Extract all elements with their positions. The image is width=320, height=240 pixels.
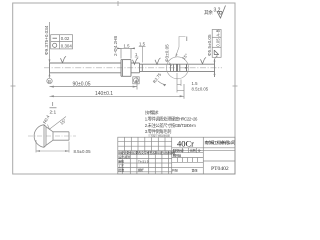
main vertical dividers — [171, 137, 173, 174]
roughness check symbol — [217, 6, 226, 19]
svg-text:1.零件调质处理硬度HRC22~26: 1.零件调质处理硬度HRC22~26 — [145, 116, 198, 123]
groove left line — [170, 64, 172, 71]
svg-text:设计 郑洪: 设计 郑洪 — [118, 154, 130, 159]
detail dim 8.5±0.05 — [36, 140, 69, 153]
svg-text:B: B — [48, 79, 51, 84]
svg-text:1.5: 1.5 — [139, 41, 146, 46]
detail 15 deg angle line — [49, 117, 66, 130]
svg-text:8.5±0.05: 8.5±0.05 — [192, 86, 209, 91]
dim 140 arrows — [50, 95, 54, 97]
collar width dim line — [119, 48, 133, 58]
dim line left end vertical — [49, 22, 51, 78]
step edge at 139.5 — [139, 63, 141, 73]
roughness mark 1 — [61, 56, 67, 63]
right column divider — [203, 160, 235, 162]
svg-text:0.05: 0.05 — [215, 38, 220, 47]
detail leader line — [176, 37, 186, 58]
collar bottom — [121, 75, 131, 77]
svg-text:PT0402: PT0402 — [211, 166, 229, 172]
leader arrow to groove — [170, 63, 172, 66]
svg-text:0.304: 0.304 — [61, 43, 73, 48]
svg-text:共 张: 共 张 — [172, 168, 178, 173]
dim 90 arrows — [50, 86, 54, 88]
shaft left end face — [49, 63, 51, 73]
dim 1.5 right lines — [177, 73, 184, 93]
runout symbol — [214, 50, 219, 55]
cylinder — [53, 132, 69, 140]
end dim arrows — [214, 61, 216, 65]
step edge at 142.3 — [141, 64, 143, 71]
svg-text:蜗杆轴: 蜗杆轴 — [173, 153, 181, 158]
svg-text:技术要求:: 技术要求: — [145, 109, 159, 116]
vertical FCF stack — [212, 30, 221, 58]
svg-text:第 张: 第 张 — [192, 168, 198, 173]
cone neck — [46, 127, 53, 146]
middle tick grid — [177, 158, 179, 163]
svg-text:阶段标记: 阶段标记 — [173, 148, 184, 153]
revision strip rows — [118, 141, 172, 143]
svg-text:南京精工机械有限公司: 南京精工机械有限公司 — [205, 140, 236, 145]
detail ball head outline — [34, 125, 69, 148]
centering tick top border — [117, 1, 119, 6]
section B bottom — [131, 72, 140, 74]
svg-text:8.5±0.05: 8.5±0.05 — [74, 149, 92, 154]
svg-text:40Cr: 40Cr — [177, 138, 194, 148]
datum balloon B — [47, 78, 52, 83]
svg-text:2-Φ4.2H8: 2-Φ4.2H8 — [113, 36, 118, 56]
svg-text:Φ3±0.05: Φ3±0.05 — [165, 44, 170, 62]
section C bottom — [140, 70, 215, 72]
ball left face heavy — [176, 64, 178, 71]
section B top — [131, 62, 140, 64]
dim arrows left end — [49, 59, 51, 63]
svg-text:1.5: 1.5 — [124, 43, 131, 48]
svg-text:Φ9.375+0.034: Φ9.375+0.034 — [44, 25, 49, 55]
svg-text:工艺: 工艺 — [118, 163, 124, 168]
revision strip columns — [124, 137, 126, 151]
middle row2 cell dividers — [182, 148, 184, 153]
svg-text:2:1: 2:1 — [50, 109, 57, 115]
svg-text:Tb.51 5: Tb.51 5 — [138, 159, 149, 163]
centering tick right border — [233, 85, 238, 87]
svg-text:比例: 比例 — [190, 148, 196, 153]
lower-left columns — [121, 151, 123, 174]
svg-text:Φ: Φ — [198, 149, 201, 153]
datum A symbol — [133, 77, 139, 84]
collar right edge — [130, 60, 132, 77]
drawing border frame — [13, 3, 235, 174]
dim 90 line — [50, 77, 138, 90]
groove right line — [173, 64, 175, 71]
circularity symbol — [53, 43, 57, 47]
roughness mark 2 — [133, 58, 139, 65]
collar left edge — [120, 60, 122, 77]
collar second edge — [121, 60, 123, 77]
roughness mark 3 — [155, 58, 161, 65]
svg-text:A: A — [135, 78, 138, 83]
svg-text:批准: 批准 — [118, 167, 124, 172]
detail boundary circle I — [167, 57, 189, 79]
40Cr cell bottom — [172, 147, 235, 149]
svg-text:A-B: A-B — [215, 29, 220, 36]
svg-text:蜗杆: 蜗杆 — [138, 167, 144, 172]
centerline — [44, 67, 222, 69]
svg-text:0.02: 0.02 — [61, 36, 70, 41]
rows below header — [118, 153, 172, 155]
roughness mark 4 — [201, 57, 207, 64]
straightness symbol — [53, 37, 58, 39]
svg-text:审核: 审核 — [118, 158, 124, 163]
svg-text:1.5: 1.5 — [192, 81, 199, 86]
svg-text:Φ5.5±0.05: Φ5.5±0.05 — [207, 34, 212, 56]
collar top — [121, 59, 131, 61]
collar dim arrows — [117, 48, 121, 50]
shaft section A top — [50, 62, 122, 64]
svg-text:2.未注公差尺寸按GB/T1804-m: 2.未注公差尺寸按GB/T1804-m — [145, 122, 196, 129]
detail centerline — [28, 135, 76, 137]
title block outer — [118, 137, 235, 174]
ball right face — [179, 64, 181, 71]
centering tick left border — [11, 85, 16, 87]
middle column rows — [172, 152, 204, 154]
shaft section A bottom — [50, 72, 122, 74]
section C top — [140, 63, 215, 65]
leader end face to FCF — [215, 56, 218, 60]
right end face — [214, 59, 216, 77]
svg-text:其余: 其余 — [204, 9, 213, 16]
dim 140 line — [50, 84, 185, 99]
face at 186.5 — [186, 64, 188, 71]
